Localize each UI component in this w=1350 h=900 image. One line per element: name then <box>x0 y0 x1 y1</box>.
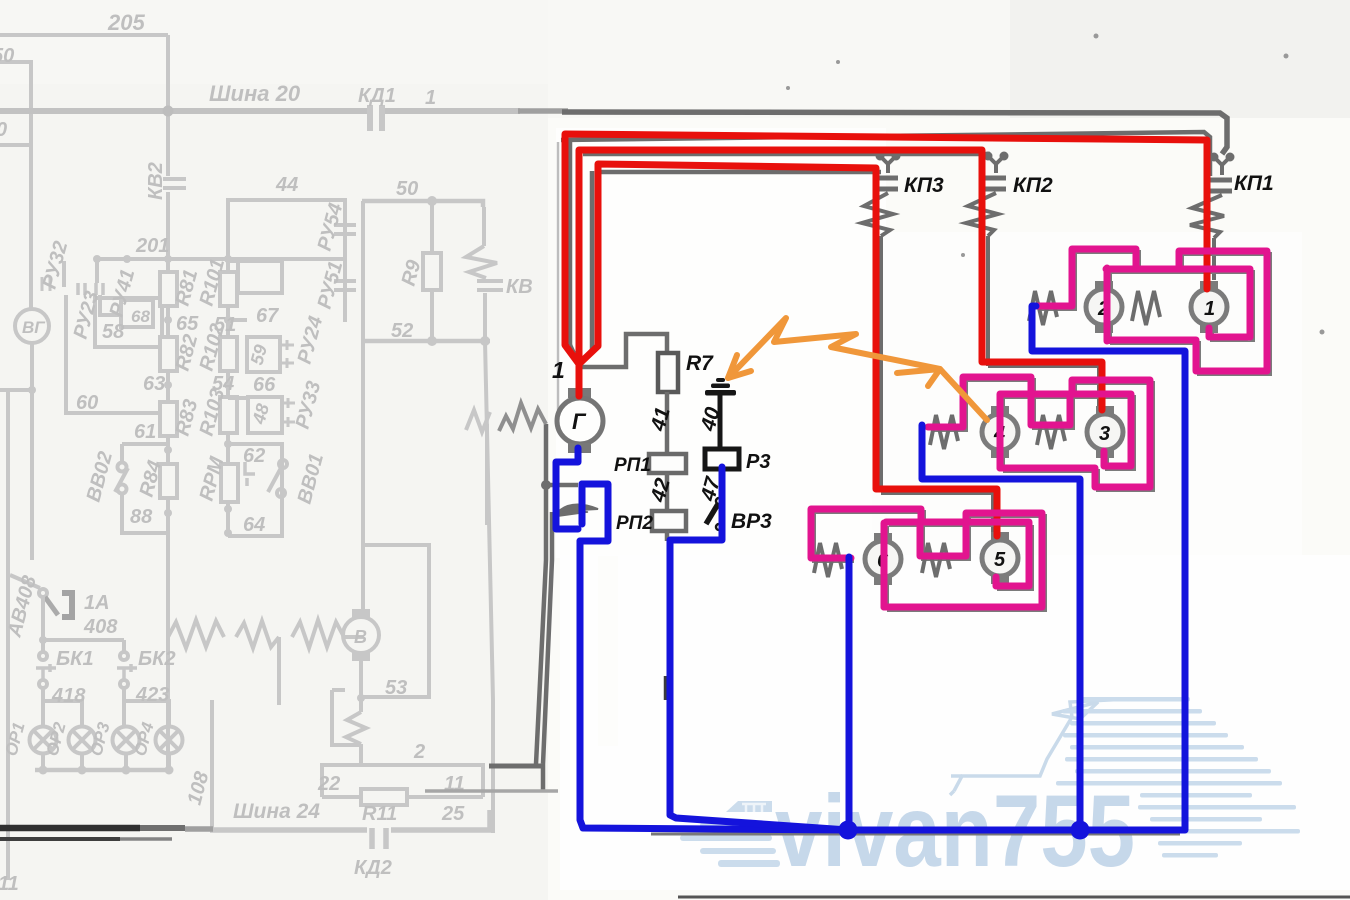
svg-text:0: 0 <box>0 119 7 141</box>
wire KV leg bottom <box>483 293 487 341</box>
node dots chain228 <box>224 316 232 537</box>
motor 3 tabs <box>1096 410 1114 454</box>
junction dot blue B <box>1071 821 1090 840</box>
generator G circle <box>557 398 603 444</box>
svg-text:52: 52 <box>391 320 413 342</box>
contactor KP3 spring <box>862 193 893 236</box>
box 68 <box>121 300 153 327</box>
wire gray G2 mid <box>583 152 990 157</box>
lamp OP3 <box>113 727 140 754</box>
wire 88 loop <box>122 493 168 533</box>
wire 52 row <box>362 339 490 344</box>
switch VR3 terminal top <box>716 498 722 504</box>
svg-text:63: 63 <box>143 373 165 395</box>
wire 2 staple <box>322 765 483 797</box>
svg-text:64: 64 <box>243 514 265 536</box>
relay RP2 box <box>652 511 686 531</box>
wire 408 row <box>43 597 124 652</box>
wire 60 loop <box>66 390 160 413</box>
svg-text:423: 423 <box>135 684 169 706</box>
knife switch blade lower flag <box>552 511 588 517</box>
scan white patch central <box>548 118 1350 900</box>
svg-text:1: 1 <box>425 87 436 109</box>
svg-text:201: 201 <box>135 235 169 257</box>
scan gray patch top far right <box>1010 0 1350 118</box>
wire chain168 bottom <box>166 498 170 770</box>
contactor KP3 bars <box>873 178 898 189</box>
svg-text:50: 50 <box>0 45 14 67</box>
svg-text:205: 205 <box>107 10 145 35</box>
contactor KP2 bars <box>981 178 1006 189</box>
svg-text:61: 61 <box>134 421 156 443</box>
BLACK LAYER <box>552 172 1274 572</box>
box 64 outline <box>228 444 282 536</box>
bus Shina20 light part right of KD1 <box>383 108 520 114</box>
svg-text:11: 11 <box>0 873 19 895</box>
contact RU54 bars <box>334 225 356 234</box>
svg-text:408: 408 <box>83 616 118 638</box>
contactor KP3 yoke <box>880 156 896 173</box>
wire KP1 down <box>1212 238 1216 280</box>
capacitor KD2 ticks <box>372 828 386 849</box>
svg-text:66: 66 <box>253 374 276 396</box>
svg-text:Шина 24: Шина 24 <box>233 800 320 823</box>
svg-text:22: 22 <box>317 773 340 795</box>
WATERMARK <box>680 697 1300 888</box>
spring group12 b <box>1132 291 1160 325</box>
watermark loco pennant <box>1052 702 1098 719</box>
svg-text:67: 67 <box>256 305 279 327</box>
wire node stub 0 <box>0 143 31 147</box>
wire RU23 branch <box>64 261 66 413</box>
resistor R81 <box>160 272 177 306</box>
wire KP2 down <box>986 236 990 366</box>
capacitor RU32 <box>42 277 50 291</box>
svg-text:КВ2: КВ2 <box>145 162 167 200</box>
svg-text:68: 68 <box>131 307 150 326</box>
motor 3 circle <box>1087 414 1123 450</box>
gray shadows group12 <box>1039 252 1270 374</box>
svg-text:Р3: Р3 <box>746 451 770 473</box>
wire blue bottom bus <box>848 306 1185 830</box>
watermark mini loco windows <box>742 804 766 812</box>
svg-text:Г: Г <box>572 409 587 434</box>
wire 418 row <box>43 688 82 727</box>
wire lamps bottom <box>35 768 170 773</box>
box 50 top <box>362 201 483 207</box>
svg-text:1: 1 <box>552 357 565 383</box>
svg-text:ВР3: ВР3 <box>731 510 772 533</box>
switch VR3 blade <box>706 504 718 524</box>
wire chain 228 vertical <box>226 259 230 536</box>
relay RP1 box <box>649 454 686 473</box>
svg-text:5: 5 <box>994 549 1006 571</box>
wire gray merge to generator <box>570 345 578 389</box>
capacitor KD1 ticks <box>370 105 382 131</box>
svg-text:60: 60 <box>76 392 98 414</box>
motor 5 circle <box>982 540 1018 576</box>
svg-text:R7: R7 <box>686 352 714 375</box>
breaker 1A blade <box>45 597 58 615</box>
wire R9 leg top <box>430 201 434 253</box>
magenta group12 through motor2 <box>1104 268 1111 341</box>
breaker 1A circle <box>39 589 47 597</box>
dark scan line bottom right <box>678 896 1350 899</box>
switch VV01 blade <box>268 466 282 492</box>
svg-text:1А: 1А <box>84 592 110 614</box>
contact 62 glyph <box>245 462 255 486</box>
wire blue rail1 <box>580 541 848 830</box>
resistor R83 <box>160 402 177 436</box>
scan white strip left of generator <box>598 556 618 746</box>
scan specks <box>786 34 1325 342</box>
wire light secondary vertical <box>485 424 489 525</box>
resistor R102 <box>220 337 237 371</box>
motor 2 circle <box>1086 289 1122 325</box>
wire KP3 down <box>879 236 883 490</box>
knife switch blade at generator <box>556 505 598 514</box>
wire 40 <box>718 395 723 449</box>
node on dark rail <box>541 480 551 490</box>
motor 4 tabs <box>991 410 1009 454</box>
svg-text:БК2: БК2 <box>138 648 176 670</box>
motor V tabs <box>352 609 370 618</box>
wire blue inner left vertical <box>579 484 586 524</box>
magenta group12 inner loop <box>1106 269 1250 337</box>
wire blue group34 branch <box>922 425 1080 830</box>
wire gray G1 outer <box>561 132 1210 345</box>
magenta group12 stub weave <box>1036 249 1136 306</box>
wire KV down long <box>485 341 493 833</box>
wire KP3 to motor5 <box>881 493 993 532</box>
scan white patch motors zone <box>872 232 1302 662</box>
wire 423 row <box>124 688 169 727</box>
wire blue group56 branch <box>846 557 853 830</box>
svg-text:44: 44 <box>275 174 298 196</box>
spring group34 a <box>930 415 958 449</box>
dark scan line bottom left lower <box>0 837 120 841</box>
wire gray to knife from rail <box>546 483 578 488</box>
wire blue generator C <box>556 448 578 529</box>
lamp OP1 <box>30 727 57 754</box>
box RPM <box>221 464 238 502</box>
wire generator to R7 <box>578 334 667 367</box>
bus Shina20 light part <box>0 108 369 114</box>
svg-text:1: 1 <box>1204 298 1215 320</box>
wire 50 vertical long <box>361 201 365 617</box>
wire under-blue bottom <box>651 833 1180 836</box>
wire KP2 to motor3 <box>988 366 1099 408</box>
lamp OP2 <box>69 727 96 754</box>
wire red outer KP1 branch <box>565 134 1207 364</box>
junction dot blue A <box>839 821 858 840</box>
motor V circle <box>343 617 379 653</box>
wire blue R3 bypass and rail2 <box>670 467 848 830</box>
svg-text:КП1: КП1 <box>1234 172 1274 195</box>
wire VG bottom <box>0 343 32 560</box>
motor 5 tabs <box>991 536 1009 580</box>
wire R9 leg bottom <box>430 290 434 341</box>
contact RU24 ticks <box>280 340 294 368</box>
wire 42 <box>665 473 670 511</box>
box 53 loop <box>361 545 429 697</box>
svg-text:58: 58 <box>102 321 125 343</box>
svg-text:88: 88 <box>130 506 153 528</box>
wire V below contact <box>359 698 363 712</box>
faint labels <box>0 10 533 895</box>
resistor R103 <box>220 397 237 433</box>
COLOR LAYER <box>556 134 1267 840</box>
svg-text:КП2: КП2 <box>1013 174 1053 197</box>
spring group12 a <box>1029 291 1057 325</box>
node dots lamps <box>39 766 174 775</box>
watermark loco body outline <box>954 699 1128 791</box>
resistor R101 <box>220 272 237 306</box>
generator VG circle <box>15 309 49 343</box>
svg-text:62: 62 <box>243 445 265 467</box>
ground symbol bars <box>705 378 736 396</box>
node dots row 201 <box>93 255 232 263</box>
resistor R82 <box>160 337 177 371</box>
svg-text:53: 53 <box>385 677 407 699</box>
wire RP2 down <box>665 531 670 541</box>
node dots 50 block <box>427 196 490 346</box>
capacitor RU23 bars <box>78 283 85 295</box>
switch BK1 <box>39 652 47 660</box>
generator G bottom tab <box>568 443 591 453</box>
motor 1 circle <box>1191 289 1227 325</box>
svg-text:БК1: БК1 <box>56 648 94 670</box>
box 67 relay <box>228 259 238 263</box>
wire V bottom <box>359 661 363 698</box>
black labels <box>552 172 1274 572</box>
watermark mini loco icon <box>680 801 780 867</box>
magenta group56 inner loop <box>886 522 1029 586</box>
motor 6 tabs <box>874 537 892 581</box>
gray shadows group34 <box>931 380 1153 490</box>
wire top-left horizontal 205 <box>0 33 168 37</box>
bus Shina20 dark part <box>518 108 568 114</box>
node at bus crossing <box>163 106 174 117</box>
switch BK2 <box>122 640 126 652</box>
wire left vertical 50 branch <box>0 62 31 310</box>
svg-text:65: 65 <box>176 313 199 335</box>
node 408 <box>39 636 47 644</box>
svg-text:2: 2 <box>413 741 425 763</box>
svg-text:25: 25 <box>441 803 465 825</box>
magenta group56 through motor6 <box>881 523 888 607</box>
watermark stripes body <box>1056 697 1300 858</box>
magenta group12 outer loop <box>1107 251 1267 371</box>
scan strip top left <box>0 0 548 84</box>
svg-text:50: 50 <box>396 178 418 200</box>
wire red inner KP3 branch <box>579 164 997 536</box>
contactor KP2 yoke <box>988 156 1004 173</box>
svg-text:КД2: КД2 <box>354 857 392 879</box>
wire 41 <box>665 392 670 454</box>
wire row 201 horizontal <box>97 257 345 261</box>
spring group56 b <box>922 543 950 577</box>
dark scan line bottom left upper <box>0 825 140 832</box>
wire dark pair down left <box>536 424 552 790</box>
orange arrow zigzag <box>728 318 987 420</box>
switch VV02 blade <box>115 468 128 492</box>
scan white patch generator zone <box>556 128 886 558</box>
box 48 <box>228 396 248 400</box>
box 58 relay <box>95 298 162 347</box>
black dash near rail <box>664 676 669 700</box>
generator G top tab <box>568 388 591 398</box>
contactor KP1 bars <box>1207 180 1232 191</box>
contact KV2 bars <box>163 179 186 188</box>
breaker AV408 wire <box>10 575 40 588</box>
node V <box>357 694 365 702</box>
wire medium row y791 <box>425 789 558 793</box>
spring light secondary <box>466 410 490 432</box>
resistor chain box4 <box>160 464 177 498</box>
scan white patch bottom zone <box>560 555 1350 890</box>
wire blue inner loop <box>580 484 608 541</box>
spring diagonal to dark pair <box>499 403 546 431</box>
motor 2 tabs <box>1095 285 1113 329</box>
breaker 1A bracket <box>62 593 72 617</box>
svg-text:КП3: КП3 <box>904 174 944 197</box>
contactor KP1 spring <box>1190 195 1224 238</box>
magenta group56 outer loop <box>884 513 1042 607</box>
svg-text:418: 418 <box>51 685 86 707</box>
svg-text:РП1: РП1 <box>614 455 651 476</box>
bus Shina24 <box>210 810 490 830</box>
spring row zigzag2 <box>236 621 279 648</box>
svg-text:КД1: КД1 <box>358 85 396 107</box>
node dots chain168 <box>164 316 172 517</box>
resistor R11 <box>361 789 407 805</box>
scan seam vertical <box>557 142 560 410</box>
wire dark shina24 segment <box>489 764 541 769</box>
magenta group34 stub weave <box>928 377 1031 427</box>
svg-text:3: 3 <box>1099 423 1110 445</box>
wire 108 vertical <box>210 700 214 831</box>
watermark loco hood left <box>950 776 962 795</box>
node VG <box>28 386 36 394</box>
svg-text:КВ: КВ <box>506 276 533 298</box>
box below V left <box>332 690 361 745</box>
svg-text:РП2: РП2 <box>616 513 653 534</box>
magenta group34 U under spring <box>1031 394 1070 425</box>
spring row zigzag3 <box>292 620 364 648</box>
wire red mid KP2 branch <box>579 150 1102 410</box>
orange arrowhead at ground <box>728 355 751 378</box>
svg-text:В: В <box>354 627 367 647</box>
wire 61 link <box>122 444 168 463</box>
contact RU33 ticks <box>282 398 295 427</box>
contact RU51 bars <box>334 281 356 290</box>
magenta group56 stub weave <box>811 509 921 558</box>
orange arrowhead mid <box>897 369 940 386</box>
switch VR3 terminal bottom <box>716 524 722 530</box>
contact KV bars <box>477 281 503 290</box>
magenta group34 through motor4 <box>997 394 1004 468</box>
FAINT LAYER <box>0 10 558 895</box>
contactor KP2 spring <box>966 193 998 236</box>
capacitor RU41 bars <box>96 283 103 295</box>
wire long vertical 205-201 rail <box>166 35 170 770</box>
wire gray G3 inner <box>579 171 881 365</box>
gray shadows group56 <box>814 512 1045 610</box>
spring row zigzag1 <box>168 620 224 648</box>
svg-text:ВГ: ВГ <box>22 318 46 337</box>
motor 6 circle <box>865 541 901 577</box>
box 59 <box>228 318 247 322</box>
wire 22-11 row <box>322 795 483 799</box>
spring KV <box>466 207 497 278</box>
motor 4 circle <box>982 414 1018 450</box>
wire left edge bottom <box>6 390 10 880</box>
spring group34 b <box>1037 415 1065 449</box>
resistor R7 <box>658 353 678 392</box>
wire zigzag2 drop <box>277 637 281 705</box>
contactor KP1 yoke <box>1214 157 1230 175</box>
wire red generator stub <box>576 360 583 396</box>
magenta group34 outer loop <box>1000 380 1150 487</box>
spring group56 a <box>814 543 842 577</box>
scan strip top right <box>548 0 1350 118</box>
svg-text:R11: R11 <box>362 803 397 825</box>
magenta group34 inner loop <box>1001 394 1131 466</box>
motor 1 tabs <box>1200 285 1218 329</box>
lamp OP4 <box>156 727 183 754</box>
spring below V <box>346 712 366 765</box>
wire RU41 branch <box>97 259 121 315</box>
relay R3 box <box>705 449 739 469</box>
box 44 bracket <box>228 200 345 322</box>
svg-text:Шина 20: Шина 20 <box>209 81 301 106</box>
resistor R9 <box>423 253 441 290</box>
